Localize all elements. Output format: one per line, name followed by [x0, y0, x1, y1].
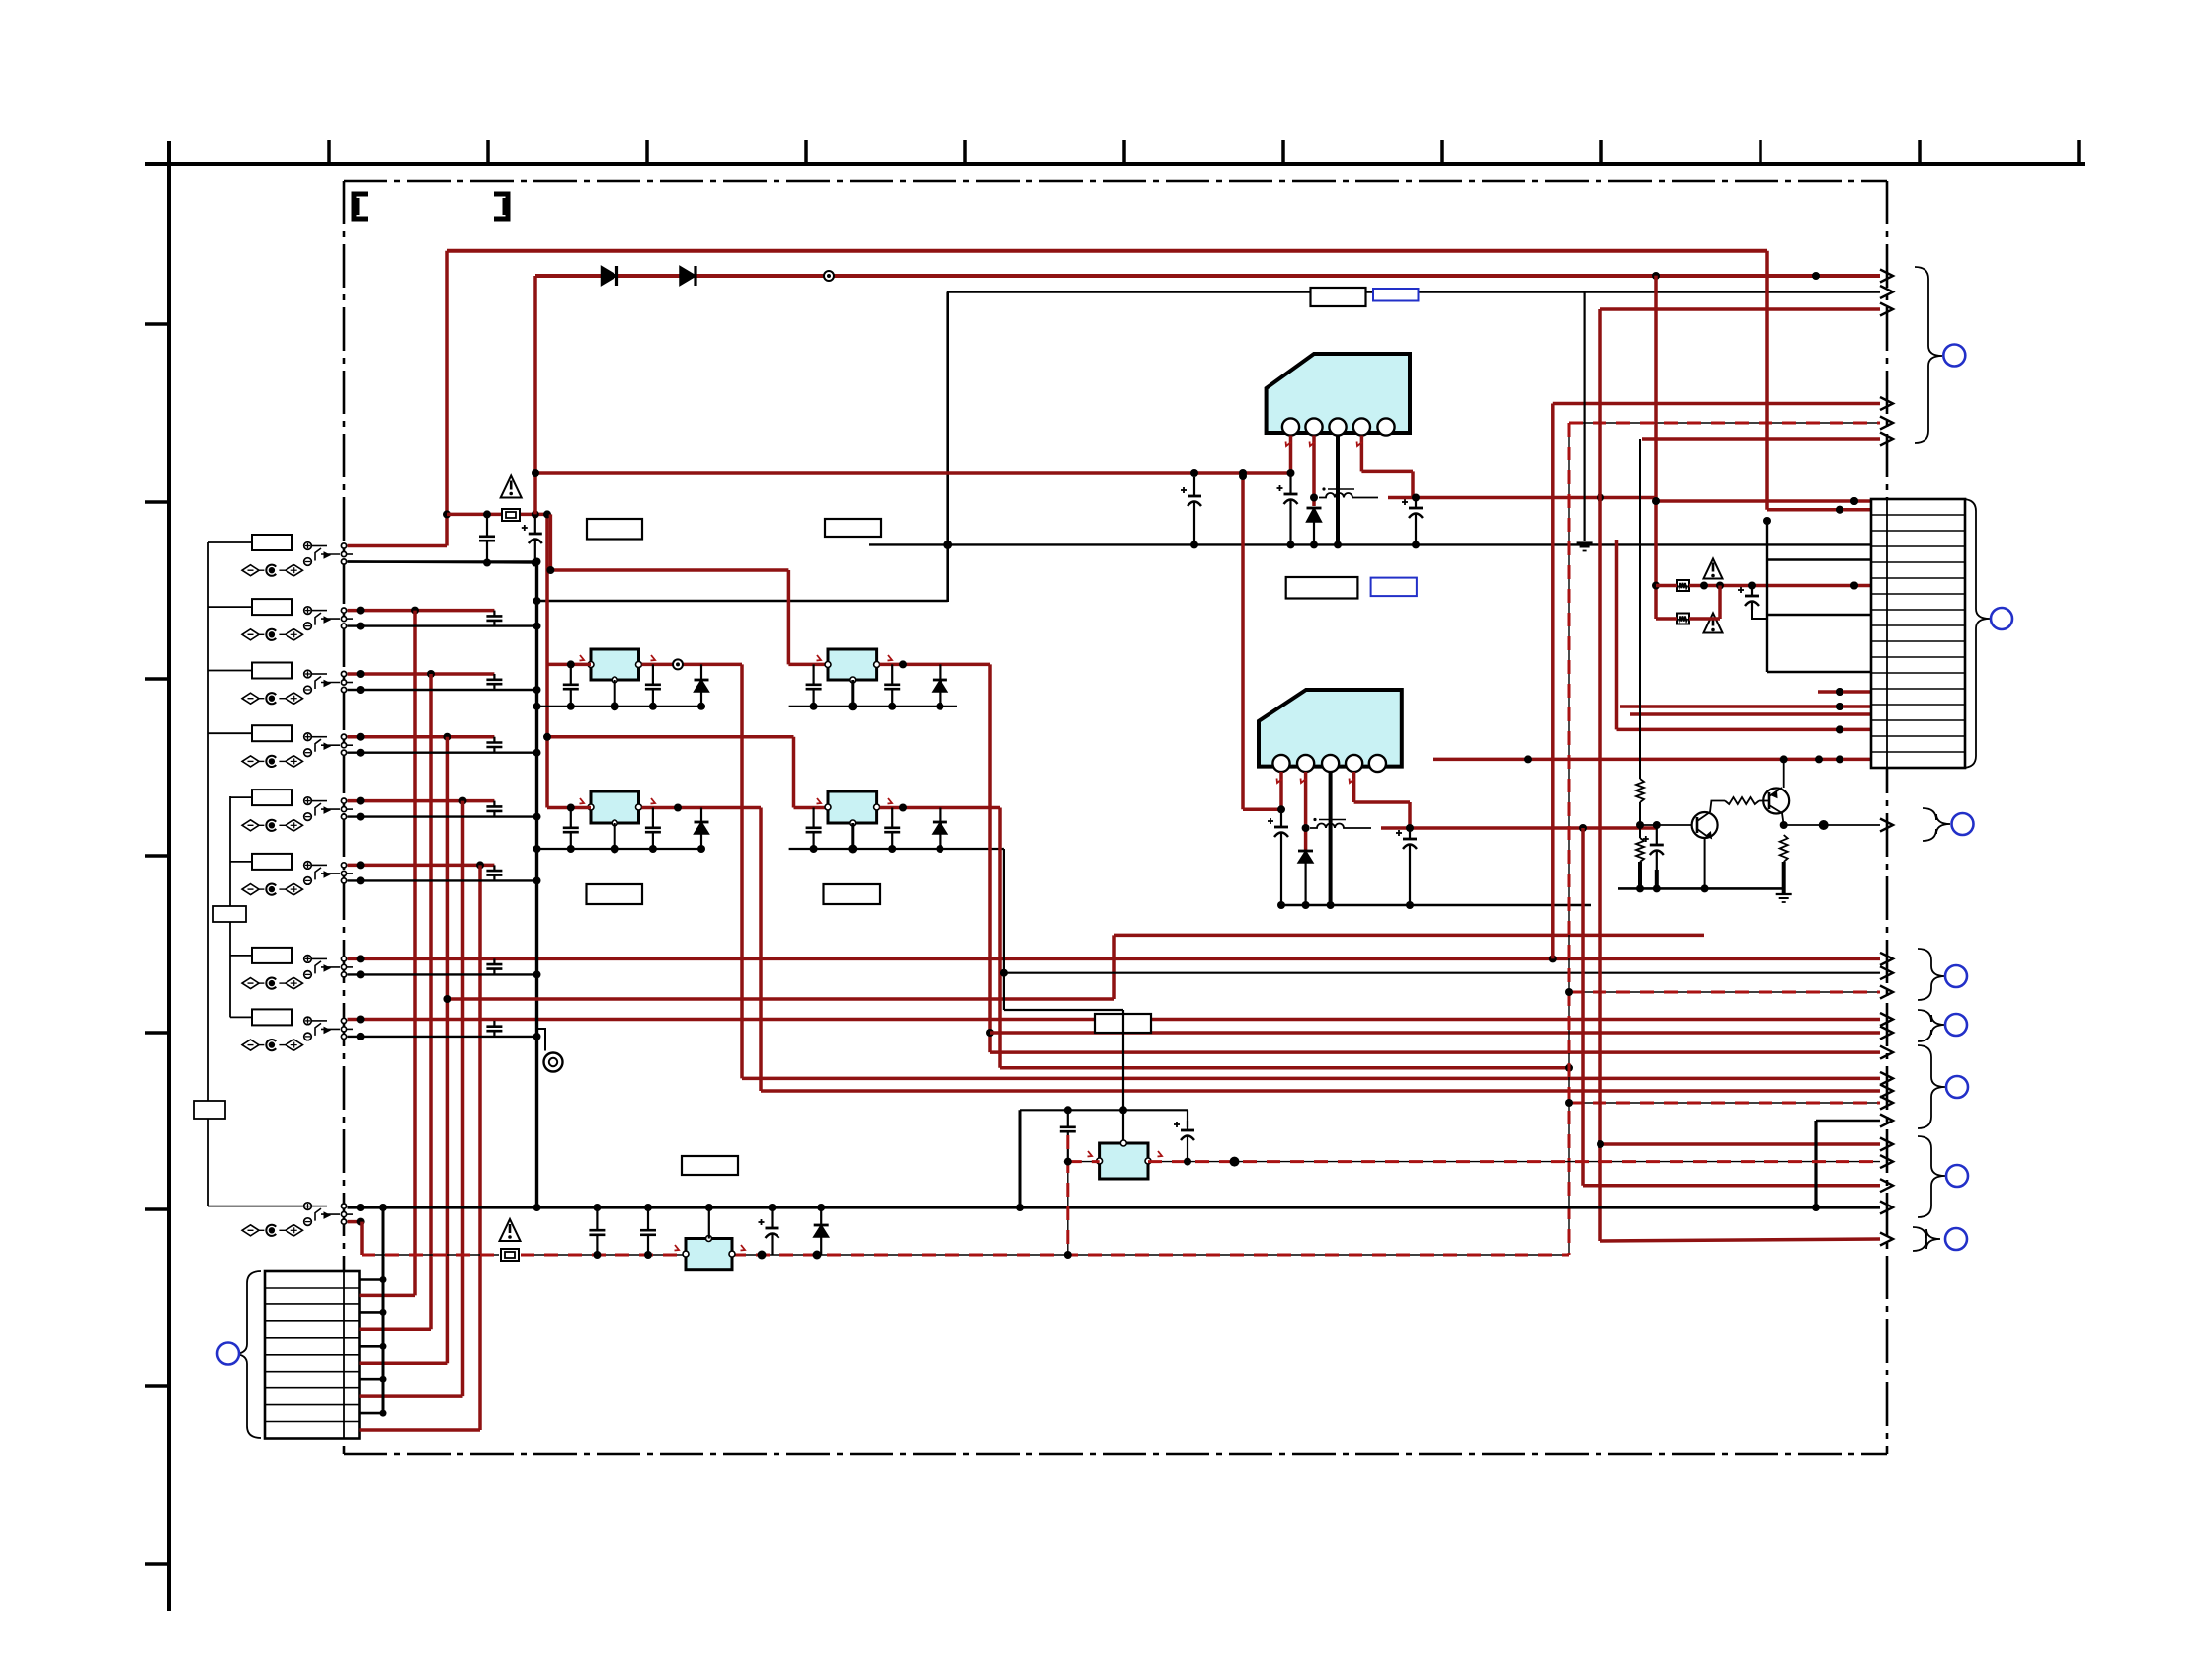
arrow exit — [1880, 1115, 1893, 1127]
wire J7 red line-out — [348, 955, 1881, 962]
brace group — [1918, 1045, 1945, 1128]
capacitor C in1 — [479, 514, 495, 562]
wire REGD out path — [1000, 808, 1573, 1072]
wire J3 black — [348, 686, 541, 694]
ruler top ticks — [329, 140, 2079, 164]
wire U2 pin2 — [1301, 772, 1310, 851]
connector circle label — [1946, 1165, 1968, 1187]
capacitor jack filter — [486, 737, 502, 753]
wire diode bus — [535, 272, 1880, 280]
wire reg feed y745.8 — [543, 733, 794, 741]
arrow exit — [1880, 417, 1893, 430]
transistor Q2 — [1763, 788, 1789, 814]
wire REGD out — [880, 798, 1000, 812]
wire stair vertical — [461, 801, 465, 1397]
capacitor cluster c1 — [1060, 1110, 1076, 1161]
regulator IC1 row1 left — [588, 649, 642, 683]
wire black riser to y1134 — [1812, 1121, 1880, 1211]
wire REGC out — [642, 798, 762, 812]
capacitor REGD cout — [884, 808, 900, 850]
wire black bus Y295 — [947, 291, 1880, 293]
wire red riser x1571 — [1553, 404, 1880, 959]
wire black bus y608 — [533, 597, 948, 605]
wire J1 black/filter gnd — [348, 559, 539, 567]
wire U1 pin2 — [1310, 436, 1319, 506]
board title bracket right — [494, 194, 508, 219]
wire J9 red elbow — [348, 1218, 365, 1255]
wire REGC gnd pin — [611, 823, 619, 854]
brace remote — [1923, 808, 1950, 841]
regulator IC2 row1 right — [825, 649, 880, 683]
warning triangle — [500, 1219, 521, 1241]
wire REGA in — [547, 655, 591, 668]
wire REGB out — [880, 655, 990, 668]
connector circle label — [1946, 1076, 1968, 1098]
wire REGD gnd pin — [848, 823, 857, 854]
wire red row y768 — [1433, 755, 1871, 763]
connector circle label — [1952, 813, 1974, 835]
arrow exit — [1880, 986, 1893, 999]
capacitor U1 c2 electrolytic — [1402, 498, 1423, 545]
wire CN row red 0 — [360, 1294, 416, 1298]
arrow exit — [1880, 1097, 1893, 1110]
fusible resistor FR2 — [1677, 614, 1689, 624]
wire black REGD gnd down — [1003, 849, 1005, 1010]
wire J6 red — [348, 861, 495, 869]
wire REGD gnd bus — [789, 845, 1004, 853]
wire red riser x1602 — [1583, 828, 1880, 1186]
capacitor REGA cin — [563, 664, 579, 706]
diode REGA — [695, 664, 709, 706]
ref label box — [587, 884, 643, 904]
wire reg feed y577 — [546, 514, 788, 574]
connector circle label — [1991, 608, 2012, 629]
wire J2 red — [348, 607, 495, 615]
connector entry dots — [1836, 497, 1858, 763]
ref label box — [1286, 577, 1358, 599]
wire U1 pin3 gnd — [1336, 436, 1340, 545]
warning triangle — [1704, 614, 1723, 633]
wire cluster pin — [1122, 1110, 1124, 1143]
ref label box — [1095, 1014, 1151, 1033]
brace group — [1918, 949, 1945, 1000]
wire J3 red — [348, 670, 495, 678]
inductor U1 L1 — [1319, 487, 1378, 497]
capacitor jack filter — [486, 674, 502, 690]
ruler left line — [167, 141, 171, 1611]
wire red row y700 — [1818, 688, 1871, 696]
connector circle label — [1945, 965, 1967, 987]
wire REGC out path — [761, 808, 1880, 1092]
diode acc — [814, 1207, 829, 1255]
capacitor U1 cin electrolytic — [1181, 477, 1201, 544]
wire Q2 collector out — [1780, 813, 1880, 830]
ruler top line — [145, 162, 2085, 166]
wire J1 red — [348, 544, 448, 548]
wire red riser x1676 — [1652, 276, 1871, 619]
wire Q2 emitter up — [1783, 759, 1785, 788]
board border dash-dot — [344, 181, 1887, 1454]
wire J5 red — [348, 797, 495, 805]
wire branch y1045 — [990, 1031, 1880, 1035]
acc dots — [593, 1204, 825, 1260]
wire U2 gnd bus — [1277, 901, 1591, 909]
diode U2 — [1298, 851, 1313, 905]
connector circle label — [1945, 1228, 1967, 1250]
wire CN row red 3 — [360, 1394, 463, 1398]
wire +B riser x542 — [533, 276, 537, 514]
input jack J2 — [208, 599, 353, 640]
brace connector right — [1962, 499, 1990, 768]
arrow exit — [1880, 966, 1893, 979]
wire stair vertical — [413, 611, 417, 1296]
ref label box — [825, 519, 881, 537]
arrow exit — [1880, 1013, 1893, 1026]
wire black riser x1789 — [1763, 517, 1871, 672]
wire red riser x1620 — [1597, 309, 1880, 1241]
capacitor connector electrolytic — [1738, 587, 1759, 610]
wire dashed main ACC — [362, 1254, 1569, 1256]
ref label box — [587, 519, 642, 540]
capacitor jack filter — [486, 801, 502, 817]
input jack J9 — [242, 1203, 353, 1236]
capacitor acc2 — [640, 1207, 656, 1255]
wire U2 pin1 — [1243, 772, 1285, 813]
capacitor jack filter — [486, 865, 502, 880]
brace group — [1918, 1136, 1945, 1217]
wire dashed branch y1004 — [1565, 988, 1880, 996]
connector CN right — [1871, 499, 1965, 768]
resistor R2 — [1636, 838, 1644, 862]
wire REGB out path — [986, 664, 1880, 1052]
wire J4 red — [348, 733, 495, 741]
wire Q1 base — [1640, 821, 1692, 829]
wire REGA gnd bus — [533, 703, 706, 710]
wire FR2 net — [1656, 586, 1720, 620]
regulator IC3 row2 left — [588, 791, 642, 826]
wire Z path — [443, 935, 1704, 1003]
capacitor acc1 — [589, 1207, 605, 1255]
capacitor jack filter — [486, 958, 502, 974]
wire J7 black — [348, 970, 541, 978]
arrow exit — [1880, 1155, 1893, 1168]
fusible resistor FR1 — [1677, 580, 1689, 591]
wire black exit y985 — [1000, 969, 1880, 977]
connector circle label — [1943, 345, 1965, 367]
resistor R1 — [1636, 779, 1644, 802]
wire Q1 emitter — [1701, 838, 1709, 892]
wire CN row red 4 — [360, 1428, 481, 1432]
wire REGC gnd bus — [533, 845, 706, 853]
wire cluster rail — [1016, 1106, 1188, 1211]
brace group — [1918, 1010, 1945, 1041]
capacitor REGC cin — [563, 808, 579, 850]
wire U1 pin4 — [1357, 436, 1414, 498]
ground symbol — [1577, 543, 1593, 551]
input jack J4 — [208, 725, 353, 767]
wire reg feed vertical x554 — [543, 510, 551, 807]
wire REGF in dashed — [1064, 1135, 1162, 1259]
wire Q1 collector — [1710, 801, 1725, 813]
wire CN rows black — [360, 1207, 387, 1417]
capacitor U2 c2 electrolytic — [1396, 828, 1417, 905]
inductor U2 L2 — [1310, 818, 1371, 828]
wire U1 out y503 — [1388, 494, 1656, 502]
board title bracket left — [354, 194, 368, 219]
wire J1 black — [348, 558, 541, 566]
regulator REG F — [1097, 1140, 1151, 1179]
capacitor jack filter — [486, 611, 502, 626]
diode REGB — [933, 664, 947, 706]
capacitor REGB cin — [806, 664, 822, 706]
connector circle label — [217, 1343, 239, 1365]
arrow exit — [1880, 1046, 1893, 1059]
fuse F2 — [501, 1249, 519, 1261]
wire red row y723 — [1630, 712, 1871, 716]
arrow exit — [1880, 397, 1893, 410]
input jack J6 — [230, 854, 353, 895]
node test point — [824, 271, 834, 281]
wire IC feed y482 — [532, 469, 1291, 477]
block label box — [213, 906, 246, 922]
wire red row y715 — [1620, 703, 1871, 710]
connector circle label — [1945, 1014, 1967, 1036]
input jack J7 — [230, 948, 353, 989]
wire REGA out path — [742, 664, 1880, 1078]
arrow exit — [1880, 953, 1893, 965]
arrow exit — [1880, 819, 1893, 832]
connector CN bottom-left — [265, 1271, 360, 1439]
ground lug — [544, 1053, 563, 1072]
ground symbol — [1776, 894, 1792, 902]
arrow exit +B — [1880, 270, 1893, 283]
wire filter red — [447, 510, 550, 518]
wire REGB gnd bus — [789, 703, 957, 710]
capacitor REGD cin — [806, 808, 822, 850]
wire Q2 base — [1759, 800, 1769, 802]
wire REGB gnd pin — [848, 680, 857, 710]
wire REGF out dashed — [1148, 1157, 1880, 1167]
wire ground lug lead — [537, 1029, 546, 1051]
diode D2 — [680, 266, 696, 286]
arrow exit — [1880, 286, 1893, 298]
amplifier IC U1 — [1267, 354, 1410, 436]
regulator REG E — [683, 1236, 735, 1270]
input jack J5 — [230, 790, 353, 831]
wire J5 black — [348, 813, 541, 821]
wire cap to gnd L — [1752, 610, 1767, 619]
brace connector left — [233, 1271, 261, 1438]
regulator IC4 row2 right — [825, 791, 880, 826]
capacitor U1 c1 electrolytic — [1277, 473, 1298, 544]
wire J6 black — [348, 876, 541, 884]
wire — [1636, 802, 1644, 838]
wire U2 pin3 gnd — [1329, 772, 1333, 905]
wire stair vertical — [429, 674, 433, 1329]
wire REGA gnd pin — [611, 680, 619, 710]
wire main black bus y1222 — [348, 1204, 1881, 1211]
wire J4 black — [348, 749, 541, 757]
wire U1 gnd bus to connector — [869, 541, 1871, 548]
amplifier IC U2 — [1259, 690, 1402, 772]
ref label box blue — [1373, 289, 1419, 301]
diode REGD — [933, 808, 947, 850]
arrow exit — [1880, 433, 1893, 446]
transistor Q1 — [1692, 812, 1718, 839]
brace group — [1913, 1227, 1940, 1251]
wire reg feed to REGB — [788, 570, 828, 664]
ruler left ticks — [145, 324, 169, 1564]
wire thick lead — [1638, 862, 1642, 888]
arrow exit — [1880, 1072, 1893, 1085]
ref label box — [824, 884, 881, 904]
wire reg feed to REGD — [794, 737, 829, 808]
wire trunk B — [229, 796, 231, 1017]
arrow exit — [1880, 1085, 1893, 1098]
wire J2 black — [348, 623, 541, 630]
resistor R3 — [1725, 797, 1759, 804]
wire U2 out y838 — [1381, 824, 1656, 832]
input jack J8 — [230, 1009, 353, 1050]
arrow exit — [1880, 1202, 1893, 1214]
wire J8 red line-out — [348, 1016, 1881, 1024]
wire red riser x1789 — [1767, 251, 1871, 514]
ref label box — [1311, 288, 1366, 306]
wire REGA out — [642, 655, 743, 669]
diode D1 — [602, 266, 617, 286]
diode REGC — [695, 808, 709, 850]
wire REGE pin — [675, 1204, 746, 1251]
ref label box blue — [1371, 578, 1417, 597]
warning triangle — [1704, 559, 1723, 579]
wire REGC in — [547, 798, 591, 812]
capacitor REGA cout — [645, 664, 661, 706]
arrow exit — [1880, 303, 1893, 316]
capacitor U2 c1 electrolytic — [1268, 813, 1288, 905]
arrow exit — [1880, 1179, 1893, 1192]
wire CN row red 2 — [360, 1361, 448, 1365]
capacitor REGB cout — [884, 664, 900, 706]
wire U1 pin1 — [1286, 436, 1295, 477]
brace signal group top — [1915, 267, 1942, 443]
wire ground main vertical — [535, 563, 538, 1208]
fuse F1 — [502, 509, 520, 521]
wire J8 black — [348, 1033, 541, 1040]
input jack J3 — [208, 663, 353, 705]
wire shielded dashed riser — [1569, 423, 1880, 1255]
resistor R4 — [1780, 835, 1788, 862]
wire +B bus top — [447, 249, 1767, 253]
wire +B riser x452 — [443, 251, 451, 546]
input jack J1 — [208, 535, 353, 576]
wire cap thick lead — [1655, 870, 1659, 888]
wire red riser x1636 — [1617, 540, 1872, 733]
capacitor bias electrolytic — [1643, 825, 1664, 888]
wire stair vertical — [446, 737, 450, 1363]
wire black riser x959 — [943, 292, 952, 603]
warning triangle — [501, 476, 522, 498]
wire stair vertical — [478, 865, 482, 1430]
capacitor acc3 electrolytic — [759, 1207, 779, 1255]
wire black y1022 — [1004, 1010, 1123, 1110]
diode U1 — [1307, 508, 1322, 544]
arrow exit — [1880, 1138, 1893, 1151]
capacitor C in2 electrolytic — [522, 518, 542, 563]
wire trunk A — [208, 542, 303, 1206]
capacitor jack filter — [486, 1021, 502, 1037]
wire FR1 net — [1656, 582, 1871, 590]
wire CN row red 1 — [360, 1328, 432, 1332]
wire dashed branch y1116 — [1565, 1099, 1880, 1107]
arrow exit — [1880, 1233, 1893, 1246]
ref label box — [682, 1156, 738, 1175]
capacitor REGC cout — [645, 808, 661, 850]
wire thick lead — [1782, 862, 1786, 894]
block label box — [194, 1101, 225, 1119]
wire U2 pin4 — [1350, 772, 1411, 828]
wire IC feed vertical x1258 — [1239, 472, 1247, 809]
capacitor cluster c2 electrolytic — [1174, 1110, 1194, 1161]
wire bias vertical x1660 — [1640, 439, 1880, 779]
arrow exit — [1880, 1027, 1893, 1040]
wire transistor gnd bus — [1618, 884, 1784, 892]
wire black riser x1603 — [1583, 292, 1585, 541]
